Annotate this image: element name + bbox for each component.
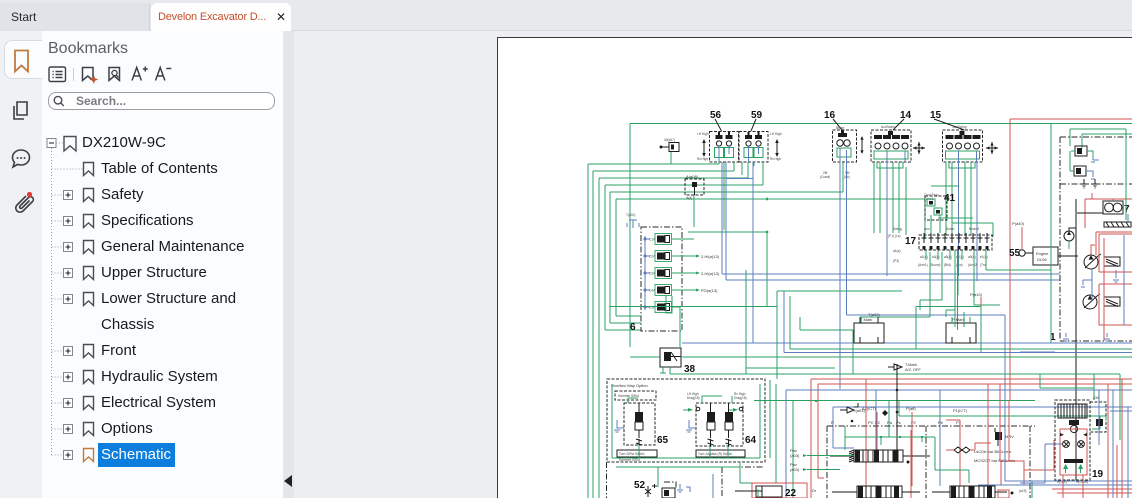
- svg-text:b1(A): b1(A): [980, 255, 988, 259]
- svg-text:Boom: Boom: [946, 227, 955, 231]
- svg-text:(Bkt): (Bkt): [944, 263, 951, 267]
- spool boom: [830, 450, 930, 462]
- svg-text:Arm: Arm: [924, 227, 930, 231]
- svg-text:64: 64: [745, 435, 757, 446]
- svg-text:38: 38: [684, 364, 696, 375]
- svg-text:(a03): (a03): [790, 467, 800, 472]
- svg-text:P(aff): P(aff): [906, 406, 916, 411]
- svg-text:17: 17: [905, 236, 917, 247]
- svg-text:Drag(18): Drag(18): [734, 396, 747, 400]
- wire green nested pilot bus: [588, 164, 925, 498]
- bookmark rail icon (active): [15, 51, 28, 72]
- MRV valve: [995, 428, 1014, 446]
- pedal valve 56: [710, 110, 739, 162]
- svg-text:One/two Way Option: One/two Way Option: [611, 383, 648, 388]
- svg-text:7: 7: [1124, 204, 1130, 215]
- svg-text:a9(A): a9(A): [968, 255, 976, 259]
- svg-text:PO(a(13): PO(a(13): [701, 288, 718, 293]
- main pump P2: [1083, 294, 1120, 309]
- cross arrows right of 15: [986, 142, 998, 154]
- svg-text:Engine: Engine: [1036, 251, 1049, 256]
- wire green top supply line: [630, 124, 1132, 348]
- one-two way option box: [607, 379, 765, 462]
- wire pilot outputs below 17: [800, 250, 1051, 374]
- joystick valve 15: [930, 110, 983, 167]
- svg-text:22: 22: [785, 488, 797, 498]
- gear pump: [1064, 228, 1076, 249]
- wire red return bottom right: [998, 384, 1054, 498]
- wire blue pedal drain lines: [722, 162, 1060, 343]
- svg-text:Drag(18): Drag(18): [687, 396, 700, 400]
- wire long pressure band: [682, 270, 1132, 498]
- svg-text:56: 56: [710, 110, 722, 121]
- svg-text:H(CW): H(CW): [1057, 480, 1067, 484]
- drain valve 52: [607, 462, 765, 498]
- svg-text:A/C OFF: A/C OFF: [905, 367, 921, 372]
- pilot manifold 17: [893, 227, 992, 267]
- wire swing pilot pair: [888, 205, 900, 238]
- flow spec text: [974, 449, 1015, 463]
- svg-text:(Sw): (Sw): [956, 263, 963, 267]
- pump group 1 border: [1060, 137, 1132, 341]
- oil cooler fan 19: [1020, 374, 1132, 498]
- joystick valve 14: [871, 110, 912, 167]
- page background: [498, 38, 1132, 498]
- svg-text:ls(a): ls(a): [686, 196, 692, 200]
- svg-text:(a19): (a19): [1019, 489, 1026, 493]
- svg-text:Rv.High: Rv.High: [697, 157, 708, 161]
- svg-text:a1(a): a1(a): [893, 249, 900, 253]
- svg-text:R: R: [831, 420, 834, 425]
- check valves diamonds: [907, 447, 971, 464]
- main control valve border: [827, 426, 1035, 498]
- svg-text:65: 65: [657, 435, 669, 446]
- svg-text:AccSwing: AccSwing: [881, 125, 895, 129]
- EPPR valve C5A: [644, 302, 672, 313]
- svg-text:a3(A): a3(A): [932, 255, 940, 259]
- svg-text:AccSwing: AccSwing: [953, 125, 967, 129]
- svg-text:P(a10): P(a10): [970, 292, 983, 297]
- travel cylinder: [735, 483, 807, 498]
- relief valve T.Mark: [882, 362, 921, 455]
- mini relief on MCV top: [840, 403, 858, 422]
- svg-text:Pa: Pa: [887, 420, 893, 425]
- svg-text:A(a08): A(a08): [686, 174, 699, 179]
- svg-text:PC: PC: [868, 420, 874, 425]
- fan motor 7: [1085, 193, 1132, 228]
- svg-text:Brake: Brake: [836, 126, 845, 130]
- wire pilot lines from pedal valves: [688, 162, 768, 307]
- EPPR valve block 6: [630, 227, 682, 333]
- P Mark block: [946, 310, 976, 343]
- wire green pump pilot loop: [1051, 124, 1132, 343]
- svg-text:(a03): (a03): [790, 453, 800, 458]
- svg-text:(Lb): (Lb): [844, 175, 850, 179]
- T(a01) tank symbol: [626, 213, 639, 228]
- pilot filter 22: [785, 488, 797, 498]
- svg-text:40(a07): 40(a07): [664, 138, 675, 142]
- comment rail icon: [13, 150, 30, 167]
- svg-text:a1(A): a1(A): [920, 255, 928, 259]
- LH/RV travel arrows left of 56: [697, 132, 709, 161]
- wire EPPR outputs: [666, 239, 696, 347]
- wire MCV manifold green: [845, 426, 969, 483]
- toolbar: collapse A-: [156, 68, 172, 81]
- svg-text:H(CCW): H(CCW): [1076, 480, 1088, 484]
- wire misc right columns: [1020, 352, 1128, 498]
- shuttle valve block 40: [685, 174, 704, 200]
- svg-text:Turn S/Rvt Switch: Turn S/Rvt Switch: [619, 452, 645, 456]
- svg-text:2-Hi(a(13): 2-Hi(a(13): [701, 271, 720, 276]
- svg-text:Swing: Swing: [893, 227, 902, 231]
- solenoid valve lower: [1070, 151, 1095, 179]
- svg-text:P2: P2: [875, 420, 881, 425]
- solenoid valve upper: [1071, 146, 1099, 162]
- svg-text:P Mark: P Mark: [952, 317, 965, 322]
- hammer valve 65: [614, 391, 669, 462]
- svg-text:a5(A): a5(A): [944, 255, 952, 259]
- svg-text:6: 6: [630, 322, 636, 333]
- EPPR port labels: [696, 254, 720, 293]
- svg-text:(Arm2): (Arm2): [968, 263, 978, 267]
- toolbar: expand A+: [132, 67, 148, 81]
- svg-text:Hammer S/Rvt: Hammer S/Rvt: [619, 458, 640, 462]
- svg-text:(Boom): (Boom): [930, 263, 940, 267]
- svg-text:Ps: Ps: [896, 420, 901, 425]
- svg-text:(P1) (Ls): (P1) (Ls): [888, 234, 900, 238]
- svg-text:T(a03): T(a03): [853, 408, 865, 413]
- accumulator 40: [660, 138, 680, 164]
- pump drive shaft: [1075, 199, 1077, 480]
- wire 38 connections: [610, 291, 1132, 379]
- wire red main pressure top right: [1010, 119, 1132, 400]
- paperclip rail icon: [16, 196, 34, 212]
- main pump P1: [1084, 245, 1120, 269]
- svg-text:MRV: MRV: [1005, 434, 1014, 439]
- svg-text:(Arm1): (Arm1): [918, 263, 928, 267]
- svg-text:DL06: DL06: [1037, 257, 1047, 262]
- engine 55: [1009, 221, 1078, 265]
- toolbar: add bookmark icon: [83, 68, 94, 81]
- svg-text:Hammer S/Rvt: Hammer S/Rvt: [618, 394, 639, 398]
- selected row icon drawn orange: [84, 449, 94, 462]
- brake valve 16: [824, 110, 1005, 448]
- wire joystick fan-in jogs: [931, 186, 993, 237]
- schematic page: [497, 37, 1132, 498]
- collapse arrow of panel divider: [282, 474, 294, 488]
- MCV port labels: [831, 406, 968, 425]
- toolbar: search bookmark icon: [109, 68, 120, 81]
- EPPR valve C4A: [644, 285, 672, 296]
- svg-text:Dr: Dr: [812, 488, 817, 493]
- wire option box internal greens: [612, 380, 776, 483]
- svg-text:Rv.High: Rv.High: [770, 157, 781, 161]
- svg-text:41: 41: [944, 193, 956, 204]
- svg-text:(P3): (P3): [893, 259, 899, 263]
- search magnifier: [53, 97, 61, 105]
- T Mark block: [854, 312, 884, 343]
- svg-text:T Mark: T Mark: [860, 317, 872, 322]
- toolbar: list icon: [49, 67, 66, 82]
- wire blue joystick drain: [887, 162, 977, 281]
- wire MCV feeders red: [866, 379, 988, 498]
- svg-text:T(a01): T(a01): [626, 213, 635, 217]
- svg-text:19: 19: [1092, 469, 1104, 480]
- cut-off valve 38: [660, 348, 696, 375]
- pages rail icon: [14, 102, 27, 119]
- svg-text:Pb: Pb: [938, 420, 944, 425]
- ground symbols on dashdot line: [1081, 179, 1098, 188]
- port labels left of MCV: [790, 448, 854, 493]
- EPPR valve C2A: [644, 251, 672, 262]
- svg-text:Bucket: Bucket: [969, 227, 979, 231]
- svg-text:LH High: LH High: [770, 132, 782, 136]
- EPPR valve C1A: [644, 234, 672, 245]
- svg-text:LsCDtr bar B60L/min: LsCDtr bar B60L/min: [974, 449, 1011, 454]
- EPPR valve C3A: [644, 268, 672, 279]
- cross arrows right of 14: [913, 142, 925, 154]
- svg-text:59: 59: [751, 110, 763, 121]
- svg-text:P1(ICT): P1(ICT): [953, 408, 968, 413]
- two-way valves 64: [683, 392, 757, 457]
- svg-text:2-Hi(a(13): 2-Hi(a(13): [701, 254, 720, 259]
- svg-text:P1: P1: [956, 420, 962, 425]
- pedal valve 59: [739, 110, 768, 162]
- spool row 2: [832, 486, 920, 498]
- svg-text:LH High: LH High: [697, 132, 709, 136]
- svg-text:Turn Joystick (R) Switch: Turn Joystick (R) Switch: [698, 452, 732, 456]
- proportional valve 41: [924, 193, 956, 233]
- wire pilot lines from joysticks to block 17: [843, 162, 975, 235]
- spool row 3: [932, 486, 1007, 498]
- svg-text:T(a03): T(a03): [868, 312, 880, 317]
- svg-text:14: 14: [900, 110, 912, 121]
- svg-text:P(a40): P(a40): [1012, 221, 1025, 226]
- LH/RV travel arrows right of 59: [770, 132, 782, 161]
- svg-text:(Crawl): (Crawl): [820, 175, 830, 179]
- wire pump outlet red/blue right column: [1063, 213, 1132, 341]
- svg-text:52: 52: [634, 480, 646, 491]
